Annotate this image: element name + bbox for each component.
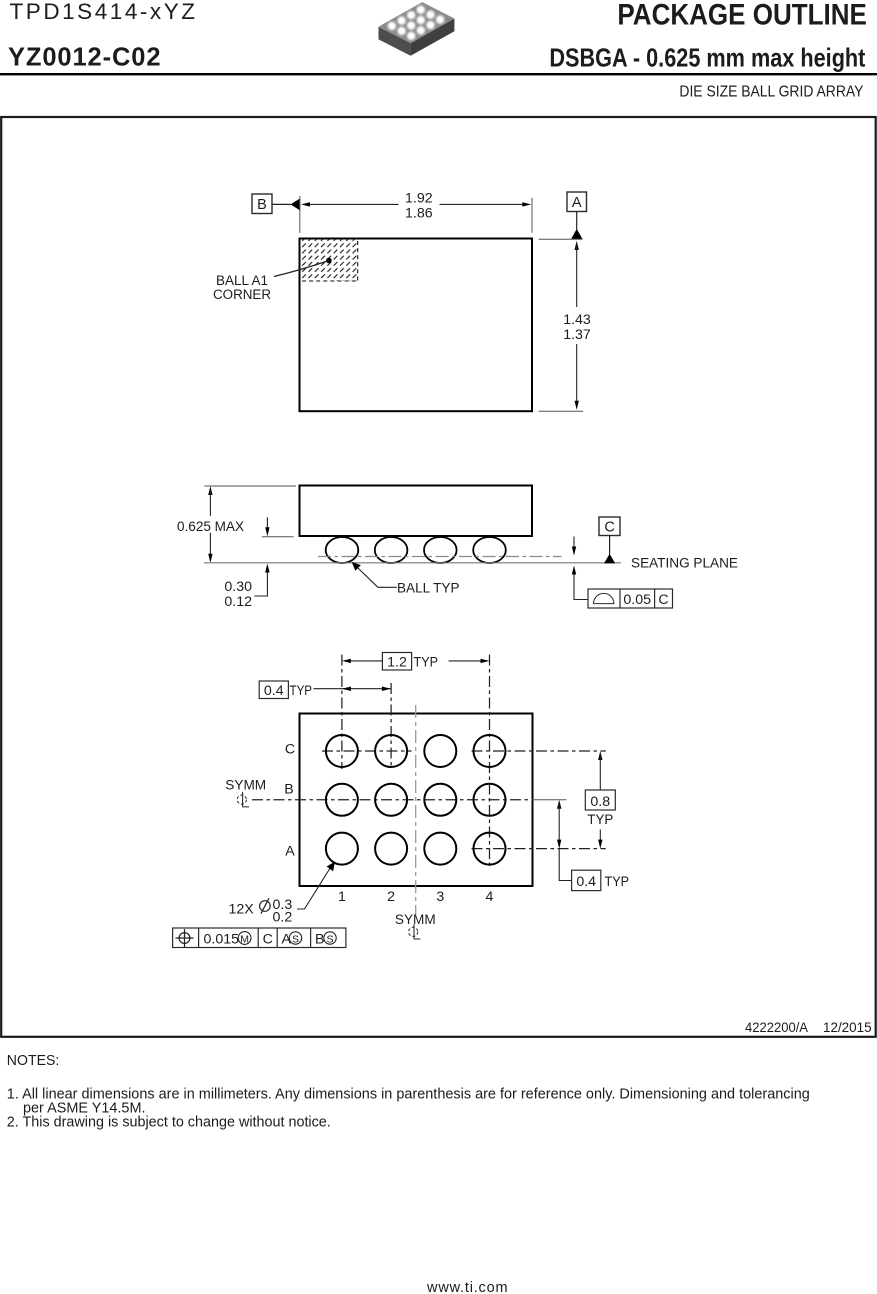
vertical symmetry centerline (415, 705, 417, 915)
centerline symbol left (237, 792, 249, 807)
label SEATING PLANE (631, 556, 738, 572)
column label 1 (338, 889, 346, 905)
subheading DIE SIZE BALL GRID ARRAY (679, 84, 863, 101)
note 1 (7, 1087, 810, 1117)
extension line body bottom left (262, 536, 294, 538)
svg-text:2. This drawing is subject to: 2. This drawing is subject to change wit… (7, 1115, 331, 1131)
svg-text:12/2015: 12/2015 (823, 1020, 872, 1036)
svg-text:TYP: TYP (587, 812, 613, 828)
svg-text:1: 1 (338, 889, 346, 905)
dimension 0.4 TYP top (259, 681, 391, 699)
ball size callout 12X diameter 0.3/0.2 (229, 897, 293, 926)
svg-text:C: C (285, 741, 295, 757)
ball A2 (375, 833, 407, 865)
datum A identifier box (567, 192, 587, 212)
column label 3 (436, 889, 444, 905)
centerline symbol bottom (409, 924, 421, 939)
note 2 (7, 1115, 331, 1131)
position feature control frame (173, 928, 346, 948)
svg-text:DSBGA - 0.625 mm max height: DSBGA - 0.625 mm max height (549, 43, 865, 73)
svg-text:TYP: TYP (414, 654, 439, 670)
svg-text:B: B (257, 197, 267, 213)
ball C2 (375, 735, 407, 767)
package body outline (top view) (300, 239, 533, 412)
solder ball 4 (side) (473, 537, 506, 563)
svg-text:1.37: 1.37 (563, 327, 591, 343)
label SYMM left (225, 778, 266, 794)
row B centerline (252, 799, 567, 801)
ball A3 (424, 833, 456, 865)
datum C identifier box (599, 517, 620, 536)
svg-text:S: S (292, 933, 299, 945)
label SYMM bottom (395, 912, 436, 928)
dimension 0.4 TYP right bottom (557, 800, 629, 891)
svg-text:SEATING PLANE: SEATING PLANE (631, 556, 738, 572)
ball B3 (424, 784, 456, 816)
drawing number and date (745, 1020, 872, 1036)
dimension line 1.43/1.37 (575, 241, 579, 410)
ball C1 (326, 735, 358, 767)
datum C triangle on seating plane (604, 554, 615, 564)
svg-text:1.86: 1.86 (405, 205, 433, 221)
svg-text:3: 3 (436, 889, 444, 905)
position symbol (179, 933, 190, 944)
svg-text:NOTES:: NOTES: (7, 1053, 60, 1069)
row A centerline (472, 848, 606, 850)
svg-text:S: S (326, 933, 333, 945)
svg-text:A: A (285, 843, 295, 859)
svg-text:0.05: 0.05 (623, 592, 651, 608)
package code YZ0012-C02 (8, 44, 161, 72)
package body outline (bottom view) (300, 714, 533, 887)
flatness 0.05 upper arrow (572, 537, 576, 556)
ball A4 (474, 833, 506, 865)
dimension 0.30/0.12 upper arrow (265, 517, 269, 536)
svg-text:C: C (263, 932, 273, 948)
column 1 centerline (341, 655, 343, 770)
svg-text:1.2: 1.2 (387, 654, 407, 670)
solder ball 1 (side) (326, 537, 359, 563)
svg-text:2: 2 (387, 889, 395, 905)
BALL TYP leader (352, 562, 397, 587)
row label C (285, 741, 295, 757)
svg-text:YZ0012-C02: YZ0012-C02 (8, 44, 161, 72)
dimension 0.625 MAX (177, 486, 244, 563)
header separator line (0, 73, 877, 75)
device name TPD1S414-xYZ (10, 0, 196, 24)
datum B identifier box (252, 194, 272, 214)
label BALL A1 CORNER (213, 273, 271, 303)
front right face (411, 19, 455, 56)
svg-text:M: M (240, 933, 249, 945)
ball center dash-dot line (318, 556, 562, 558)
row C centerline (322, 750, 606, 752)
svg-text:0.625 MAX: 0.625 MAX (177, 519, 244, 535)
svg-text:0.4: 0.4 (576, 874, 596, 890)
extension line bottom (1.43 dim) (539, 410, 583, 412)
svg-text:C: C (604, 520, 614, 536)
svg-text:SYMM: SYMM (395, 912, 436, 928)
svg-text:1.43: 1.43 (563, 312, 591, 328)
extension line left (1.92 dim) (299, 196, 301, 233)
subtitle DSBGA height (549, 43, 865, 73)
top face (379, 2, 455, 43)
notes heading (7, 1053, 60, 1069)
svg-text:TYP: TYP (290, 683, 313, 699)
ball size leader (297, 862, 335, 909)
svg-text:0.4: 0.4 (264, 683, 284, 699)
datum B leader line (272, 203, 291, 205)
solder ball 2 (side) (375, 537, 408, 563)
svg-text:TYP: TYP (605, 874, 630, 890)
svg-text:B: B (284, 782, 293, 798)
svg-text:DIE SIZE BALL GRID ARRAY: DIE SIZE BALL GRID ARRAY (679, 84, 863, 101)
column 2 centerline (390, 683, 392, 769)
ball A1 corner hatch area (301, 240, 358, 282)
ball A1 leader dot (326, 258, 332, 264)
svg-text:PACKAGE OUTLINE: PACKAGE OUTLINE (617, 0, 867, 32)
flatness feature control frame (588, 589, 673, 608)
row label A (285, 843, 295, 859)
datum A arrowhead (571, 229, 583, 239)
svg-text:C: C (658, 592, 668, 608)
column label 2 (387, 889, 395, 905)
svg-text:12X: 12X (229, 902, 255, 918)
dimension line 1.92/1.86 (301, 202, 531, 206)
svg-text:4222200/A: 4222200/A (745, 1020, 808, 1036)
flatness 0.05 lower arrow and leader (572, 566, 588, 600)
dimension 0.8 TYP right (585, 751, 615, 849)
ball B2 (375, 784, 407, 816)
solder balls on top face (388, 6, 445, 41)
svg-text:TPD1S414-xYZ: TPD1S414-xYZ (10, 0, 196, 24)
solder ball 3 (side) (424, 537, 457, 563)
footer url (426, 1280, 508, 1294)
dimension text 1.92 / 1.86 (405, 191, 433, 222)
ball B4 (474, 784, 506, 816)
dimension text 1.43 / 1.37 (563, 312, 591, 343)
3D package image (379, 2, 455, 56)
svg-text:0.015: 0.015 (204, 932, 240, 948)
datum C leader line (609, 536, 611, 555)
left side face (379, 27, 411, 56)
svg-text:A: A (572, 195, 582, 211)
svg-text:0.12: 0.12 (224, 594, 252, 610)
ball C3 (424, 735, 456, 767)
svg-text:CORNER: CORNER (213, 287, 271, 303)
ball C4 (474, 735, 506, 767)
svg-text:www.ti.com: www.ti.com (426, 1280, 508, 1294)
svg-text:0.2: 0.2 (273, 910, 293, 926)
datum B arrowhead (291, 198, 301, 210)
column 4 centerline (489, 655, 491, 868)
row label B (284, 782, 293, 798)
dimension 0.30/0.12 lower arrow and leader (254, 564, 269, 597)
dimension text 0.30 / 0.12 (224, 579, 252, 610)
datum A leader line (576, 212, 578, 230)
svg-text:BALL TYP: BALL TYP (397, 580, 460, 596)
svg-text:1.92: 1.92 (405, 191, 433, 207)
extension line right (1.92 dim) (531, 198, 533, 233)
svg-text:0.8: 0.8 (590, 794, 610, 810)
column label 4 (486, 889, 494, 905)
ball B1 (326, 784, 358, 816)
ball A1 leader line (274, 261, 329, 277)
package body outline (side view) (300, 486, 533, 537)
svg-text:SYMM: SYMM (225, 778, 266, 794)
seating plane line (204, 562, 621, 564)
extension line body top left (204, 485, 296, 487)
ball A1 (326, 833, 358, 865)
title PACKAGE OUTLINE (617, 0, 867, 32)
dimension 1.2 TYP (342, 653, 490, 671)
label BALL TYP (397, 580, 460, 596)
svg-text:B: B (315, 932, 324, 948)
svg-text:0.30: 0.30 (224, 579, 252, 595)
svg-text:4: 4 (486, 889, 494, 905)
extension line top (1.43 dim) (539, 238, 583, 240)
